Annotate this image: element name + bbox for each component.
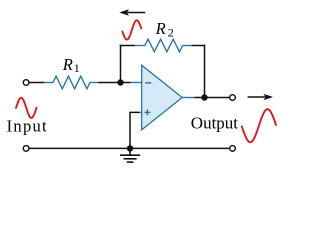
svg-text:R: R xyxy=(155,19,166,38)
svg-text:2: 2 xyxy=(168,26,174,40)
resistor R1 xyxy=(44,76,99,89)
wire feedback top left segment xyxy=(120,45,135,47)
wire R1 to node A xyxy=(98,82,120,84)
output terminal circle xyxy=(230,95,236,101)
svg-text:R: R xyxy=(62,55,73,74)
ground junction dot xyxy=(127,145,133,151)
wire output pin to output terminal xyxy=(195,97,230,99)
arrow output direction (right arrow) xyxy=(248,94,273,101)
output signal sine (red) xyxy=(242,109,276,142)
svg-text:Input: Input xyxy=(7,117,48,136)
feedback signal sine (red) xyxy=(122,20,141,39)
input terminal circle xyxy=(23,80,29,86)
svg-text:1: 1 xyxy=(74,61,80,75)
input signal sine (red) xyxy=(16,98,37,118)
arrow feedback direction (left arrow) xyxy=(119,9,145,16)
ground symbol xyxy=(120,148,140,162)
wire feedback top right segment xyxy=(192,45,205,47)
output node junction dot xyxy=(201,94,207,100)
ground rail right terminal circle xyxy=(230,146,236,152)
wire feedback right vertical xyxy=(204,45,206,98)
op-amp plus symbol xyxy=(145,110,151,116)
ground rail left terminal circle xyxy=(23,146,29,152)
wire plus pin to ground rail xyxy=(130,112,139,148)
wire feedback left vertical xyxy=(120,45,122,83)
label R2 xyxy=(155,19,174,39)
wire ground rail xyxy=(29,147,229,149)
op-amp output pin stub xyxy=(182,97,195,99)
op-amp minus pin stub xyxy=(130,82,141,84)
svg-text:Output: Output xyxy=(191,113,239,132)
resistor R2 xyxy=(135,39,192,52)
op-amp U1 triangle xyxy=(142,65,183,130)
wire input terminal to R1 xyxy=(29,82,44,84)
label R1 xyxy=(62,55,80,75)
node A junction dot xyxy=(117,79,123,85)
op-amp plus pin stub xyxy=(139,111,142,113)
wire node A to op-amp minus input xyxy=(121,82,131,84)
op-amp minus symbol xyxy=(145,82,151,84)
